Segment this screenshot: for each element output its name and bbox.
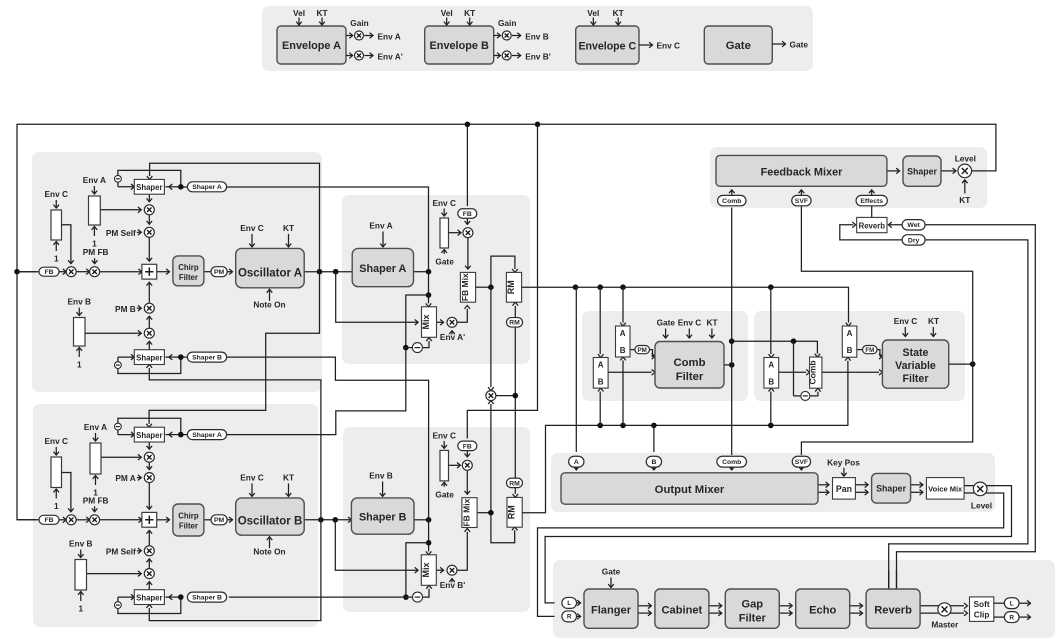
- pill Shaper A ref osc B: [165, 430, 226, 440]
- svg-text:Gate: Gate: [726, 40, 751, 52]
- svg-text:Oscillator A: Oscillator A: [238, 267, 302, 279]
- wire mult to FB mix B bottom: [457, 529, 470, 571]
- svg-text:Env C: Env C: [432, 198, 456, 208]
- wire top loop osc B: [118, 418, 181, 437]
- svg-text:1: 1: [92, 239, 97, 249]
- comb filter Gate input: [657, 318, 676, 339]
- svg-text:Env B': Env B': [525, 51, 551, 61]
- wire fx chain R: [709, 610, 722, 616]
- wire negate to mix A bottom: [406, 338, 432, 348]
- svg-text:Env B: Env B: [369, 471, 393, 481]
- comb blend box svf: [808, 357, 822, 388]
- svg-text:1: 1: [93, 488, 98, 498]
- multiplier FB B: [449, 460, 473, 470]
- oscillator B Env C input: [240, 472, 264, 496]
- svg-text:Key Pos: Key Pos: [827, 457, 860, 467]
- reverb block: [866, 589, 920, 628]
- oscillator A block: [236, 248, 305, 287]
- env slider Env A osc A: [83, 175, 106, 249]
- svg-text:Master: Master: [931, 620, 959, 630]
- pill Shaper B ref osc A: [165, 352, 226, 362]
- gate label shaper A section: [435, 250, 454, 267]
- wire shaper-to-mult osc B: [147, 442, 153, 449]
- svg-text:RM: RM: [509, 320, 520, 327]
- negate circle top loop osc A: [115, 175, 122, 182]
- voice mix block: [926, 478, 964, 500]
- svg-text:Vel: Vel: [587, 8, 599, 18]
- svg-text:Env A: Env A: [83, 175, 106, 185]
- pill A output mixer: [569, 456, 584, 467]
- oscillator B Note On input: [253, 537, 285, 557]
- multiplier voice level: [971, 482, 992, 510]
- wire feedback master loop: [14, 122, 996, 520]
- svg-text:Mix: Mix: [421, 562, 431, 577]
- svg-text:Cabinet: Cabinet: [662, 605, 703, 617]
- wire adder to chirp filter osc A: [157, 269, 170, 275]
- svg-text:Voice Mix: Voice Mix: [928, 485, 963, 494]
- block Envelope B: [425, 26, 494, 64]
- pill L effects input: [562, 597, 577, 608]
- svg-text:FB: FB: [44, 269, 53, 276]
- wire comb blend to svf: [822, 370, 883, 376]
- A/B blend box 1 svf: [764, 358, 779, 389]
- svg-text:Filter: Filter: [676, 371, 704, 383]
- svg-text:KT: KT: [283, 223, 294, 233]
- wire R output: [1019, 614, 1030, 620]
- svg-text:FB: FB: [463, 211, 472, 218]
- block Gate: [704, 26, 772, 64]
- wire svf blend2 to FM pill: [857, 349, 863, 351]
- Envelope B Vel input: [441, 8, 453, 25]
- pill FB osc B: [39, 515, 59, 524]
- wire raw osc A to top shaper loop: [147, 163, 320, 272]
- wire chirp to PM pill osc B: [204, 519, 211, 521]
- mix block A: [421, 307, 437, 338]
- wire oscillator A output: [304, 269, 352, 275]
- RM block A: [506, 272, 522, 302]
- RM block B: [507, 497, 523, 527]
- pill Shaper B ref osc B: [165, 592, 226, 602]
- svg-text:Comb: Comb: [808, 360, 818, 384]
- svg-text:Shaper: Shaper: [136, 594, 162, 603]
- svg-text:Feedback Mixer: Feedback Mixer: [761, 166, 843, 178]
- wire mult to FB mix A bottom: [457, 306, 470, 323]
- wire mult chain osc A top: [147, 215, 153, 225]
- wire fx chain R: [779, 610, 792, 616]
- svg-text:B: B: [620, 346, 626, 355]
- wire PM pill to oscillator A: [227, 269, 232, 275]
- shaper B Env B input: [369, 471, 393, 497]
- wire effects pill from reverb mini: [871, 206, 873, 218]
- multiplier FB env osc A: [66, 267, 76, 277]
- A/B blend box 2 comb: [616, 326, 631, 357]
- wire shaper A neg branch: [403, 295, 429, 350]
- svg-text:Clip: Clip: [974, 610, 990, 620]
- Envelope A KT input: [316, 8, 327, 25]
- FB mix block A: [460, 272, 476, 302]
- wire effects pill to feedback mixer: [869, 190, 875, 196]
- multiplier Env A prime: [440, 317, 465, 342]
- adder osc B: [142, 512, 157, 527]
- svg-text:1: 1: [78, 604, 83, 614]
- wire L pill to flanger: [577, 600, 581, 606]
- wire bus B to comb blend1 bottom: [598, 388, 604, 425]
- wire Env C slider out osc B: [62, 473, 74, 512]
- svg-text:Vel: Vel: [293, 8, 305, 18]
- pill Dry: [902, 235, 925, 245]
- comb filter block: [655, 342, 724, 389]
- wire FB mix B output: [477, 510, 494, 516]
- panel effects section: [553, 560, 1055, 638]
- negate circle mix A: [412, 343, 422, 353]
- Envelope B gain multiplier 1: [494, 31, 549, 41]
- svg-text:Pan: Pan: [836, 484, 852, 494]
- env slider Env C osc A: [44, 189, 68, 264]
- multiplier Env B prime: [440, 565, 466, 590]
- wire PM pill to oscillator B: [227, 517, 232, 523]
- svg-text:Shaper: Shaper: [136, 183, 162, 192]
- oscillator A Env C input: [240, 223, 264, 247]
- wire mult chain osc B bottom: [147, 559, 153, 569]
- svg-text:B: B: [651, 459, 656, 466]
- wire A pill into output mixer: [574, 467, 580, 470]
- svg-text:1: 1: [54, 254, 59, 264]
- mix block B: [421, 555, 437, 586]
- svg-text:FB: FB: [44, 517, 53, 524]
- wire dry loop: [840, 222, 1028, 589]
- wire bottom loop osc A: [118, 354, 181, 373]
- wire FM pill to svf: [877, 350, 882, 360]
- svg-text:Gate: Gate: [657, 318, 676, 328]
- svg-text:PM: PM: [214, 269, 225, 276]
- wire feedback mixer to shaper: [887, 168, 900, 174]
- svg-text:Shaper: Shaper: [876, 484, 906, 494]
- svg-text:Gap: Gap: [742, 599, 764, 611]
- svg-text:Flanger: Flanger: [591, 605, 632, 617]
- svg-text:Shaper A: Shaper A: [192, 184, 222, 191]
- wire bus B to svf blend1 bottom: [768, 388, 774, 428]
- svg-text:Env C: Env C: [894, 316, 918, 326]
- pill PM osc A: [211, 267, 227, 277]
- wire comb pill to feedback mixer: [729, 190, 735, 196]
- svg-text:Gate: Gate: [602, 567, 621, 577]
- svg-text:Comb: Comb: [722, 198, 741, 205]
- svg-text:Reverb: Reverb: [859, 222, 886, 231]
- wire reverb out R: [920, 610, 967, 616]
- multiplier FB env osc B: [66, 515, 76, 525]
- wire negate to mix B bottom: [406, 585, 432, 597]
- multiplier env osc A bottom: [144, 328, 154, 338]
- svg-text:Chirp: Chirp: [178, 263, 199, 272]
- wire adder bottom input osc A: [147, 282, 153, 303]
- wire bus A to comb blend2 top: [620, 287, 626, 326]
- wire raw osc A down to osc B section shaper: [146, 272, 319, 428]
- svg-text:Env C: Env C: [678, 318, 702, 328]
- flanger Gate input: [602, 567, 621, 588]
- wire R pill to flanger: [577, 614, 581, 620]
- svg-text:Level: Level: [971, 501, 992, 511]
- svg-text:Env C: Env C: [657, 41, 681, 51]
- wire FB pill to mult A: [465, 218, 471, 224]
- wire shaper A out down to mix A: [426, 272, 432, 307]
- svg-text:PM FB: PM FB: [83, 247, 109, 257]
- Envelope A gain multiplier 1: [346, 31, 401, 41]
- svg-text:B: B: [598, 378, 604, 387]
- panel oscillator A section: [32, 152, 322, 392]
- wire B pill into output mixer: [651, 467, 657, 470]
- wire fx chain L: [638, 603, 651, 609]
- reverb mini block: [857, 217, 887, 232]
- pill Comb feedback mixer: [718, 195, 746, 205]
- block Envelope A: [277, 26, 346, 64]
- svg-text:Shaper B: Shaper B: [192, 595, 222, 602]
- wire raw osc B to shaper A section bottom: [147, 365, 321, 520]
- svg-text:KT: KT: [316, 8, 327, 18]
- shaper block (top) osc B section: [134, 427, 164, 442]
- output mixer block: [561, 473, 818, 504]
- panel shaper A section: [342, 195, 530, 364]
- svg-text:Shaper B: Shaper B: [359, 512, 407, 524]
- wire comb neg branch svf: [793, 341, 795, 396]
- svg-text:PM Self: PM Self: [106, 546, 136, 556]
- Envelope A Gain label: [350, 18, 368, 28]
- multiplier PM Self osc A: [106, 227, 154, 238]
- wire ringmod to RM B: [513, 396, 519, 498]
- wire reverb out L: [920, 603, 967, 609]
- wire shaper B neg branch: [403, 543, 429, 600]
- svg-text:State: State: [903, 347, 929, 359]
- Envelope A gain multiplier 2: [346, 51, 403, 61]
- wire adder to chirp filter osc B: [157, 517, 170, 523]
- svg-text:SVF: SVF: [795, 459, 808, 466]
- pill Wet: [902, 220, 925, 230]
- svg-text:Filter: Filter: [179, 273, 198, 282]
- wire FB mix A down to ringmod mult: [488, 287, 494, 390]
- svg-text:Comb: Comb: [673, 357, 705, 369]
- multiplier master volume: [931, 603, 959, 630]
- wire comb blend1 to comb filter: [608, 370, 655, 376]
- svg-text:Envelope B: Envelope B: [430, 40, 489, 52]
- pill Comb output mixer: [717, 456, 747, 467]
- wire Env B slider out osc B: [87, 571, 142, 577]
- svg-text:Oscillator B: Oscillator B: [238, 515, 303, 527]
- pill FB shaper B section: [458, 441, 477, 451]
- svg-text:Shaper A: Shaper A: [359, 263, 406, 275]
- wire shaper A out up to pill row: [183, 187, 429, 272]
- A/B blend box 1 comb: [593, 358, 608, 389]
- env slider Env A osc B: [84, 422, 107, 498]
- svg-text:A: A: [598, 361, 604, 370]
- wire shaper to voice mix L: [911, 482, 923, 488]
- pill B output mixer: [646, 456, 661, 467]
- wire shaper A to osc B pill: [183, 348, 406, 435]
- svg-text:Variable: Variable: [895, 360, 936, 372]
- svg-text:Shaper: Shaper: [907, 166, 937, 176]
- svg-text:FB Mix: FB Mix: [460, 273, 470, 301]
- svg-text:PM: PM: [214, 517, 225, 524]
- svf KT input: [928, 316, 939, 337]
- svg-text:Filter: Filter: [179, 521, 198, 530]
- svg-text:L: L: [567, 600, 571, 607]
- negate circle bottom loop osc B: [115, 602, 122, 609]
- wire shaper B out up to osc A pill: [183, 357, 429, 520]
- wire RM A output bus: [522, 284, 852, 326]
- wire bus A to A pill: [575, 287, 578, 452]
- echo block: [796, 589, 850, 628]
- multiplier FB A: [449, 228, 473, 238]
- svg-text:Env A: Env A: [84, 422, 107, 432]
- negate circle svf comb: [801, 391, 810, 400]
- wire FB tap B: [467, 123, 537, 439]
- wire bus B to B pill: [653, 425, 655, 452]
- svg-text:Filter: Filter: [903, 373, 929, 385]
- feedback mixer block: [716, 155, 887, 186]
- svf Env C input: [894, 316, 918, 337]
- negate circle top loop osc B: [115, 423, 122, 430]
- svg-text:A: A: [574, 459, 579, 466]
- wire mult-to-adder osc B: [147, 483, 153, 510]
- svg-text:Reverb: Reverb: [874, 605, 912, 617]
- svg-text:Comb: Comb: [722, 459, 741, 466]
- svg-text:PM Self: PM Self: [106, 228, 136, 238]
- svg-text:Dry: Dry: [908, 237, 920, 244]
- svg-text:Shaper B: Shaper B: [192, 355, 222, 362]
- wire reverb taps: [889, 570, 897, 589]
- Gate output wire: [772, 40, 808, 50]
- wire comb distribution vertical: [729, 208, 735, 365]
- svg-text:KT: KT: [959, 195, 970, 205]
- wire comb to svf comb blend: [732, 338, 821, 357]
- Envelope B Gain label: [498, 18, 516, 28]
- pill Effects feedback mixer: [856, 195, 887, 205]
- svg-text:Vel: Vel: [441, 8, 453, 18]
- feedback level KT input: [959, 180, 970, 205]
- svg-text:FM: FM: [865, 347, 874, 354]
- svg-text:1: 1: [54, 501, 59, 511]
- wire bus A to svf blend1 top: [769, 287, 775, 357]
- wire adder bottom input osc B: [147, 530, 153, 546]
- Envelope C output wire: [639, 41, 680, 51]
- flanger block: [584, 589, 638, 628]
- Envelope B KT input: [464, 8, 475, 25]
- panel feedback mixer section: [710, 147, 987, 208]
- svg-text:Effects: Effects: [860, 198, 883, 205]
- pill RM shaper A section: [507, 318, 523, 328]
- wire shaper B to osc B bottom pill: [229, 596, 406, 598]
- wire FB mix A to RM A top: [491, 256, 518, 287]
- svg-text:Level: Level: [955, 153, 976, 163]
- svg-text:Env C: Env C: [240, 472, 264, 482]
- wire chirp to PM pill osc A: [204, 271, 211, 273]
- shaper B block: [351, 498, 414, 534]
- wire voice out L: [545, 486, 1011, 603]
- env slider Env B osc B: [69, 538, 93, 613]
- svg-text:Gate: Gate: [790, 40, 809, 50]
- svg-text:Env C: Env C: [240, 223, 264, 233]
- panel envelopes: [262, 6, 813, 71]
- svg-text:SVF: SVF: [795, 198, 808, 205]
- wire mult chain osc B top: [147, 462, 153, 469]
- wire FB mult to FB mix B: [465, 470, 471, 494]
- panel output mixer section: [551, 453, 995, 512]
- wire bus B to comb blend2 bottom: [620, 357, 626, 425]
- multiplier ringmod: [486, 391, 518, 401]
- svg-text:L: L: [1010, 601, 1014, 608]
- panel shaper B section: [343, 427, 530, 612]
- shaper block (bottom) osc B section: [134, 590, 164, 605]
- shaper block feedback mixer: [903, 156, 941, 186]
- svg-text:Shaper: Shaper: [136, 354, 162, 363]
- svg-text:RM: RM: [507, 505, 517, 519]
- svg-text:PM A: PM A: [115, 473, 135, 483]
- pill SVF output mixer: [792, 456, 810, 467]
- svg-text:KT: KT: [706, 318, 717, 328]
- wire output mixer to pan L: [818, 482, 829, 488]
- wire mult chain osc A bottom: [147, 316, 153, 328]
- pill PM comb section: [635, 346, 650, 354]
- wire shaper to level mult: [941, 168, 956, 174]
- svg-text:FB Mix: FB Mix: [461, 498, 471, 526]
- negate circle bottom loop osc A: [115, 362, 122, 369]
- wire comb blend2 to PM pill: [630, 349, 635, 351]
- wire svf pill into output mixer: [799, 467, 805, 470]
- wire svf down to output mixer: [801, 364, 972, 455]
- wire fx chain L: [709, 603, 722, 609]
- wire fx chain R: [850, 610, 863, 616]
- wire fx chain R: [638, 610, 651, 616]
- wire shaper-to-mult osc A: [147, 194, 153, 202]
- oscillator A KT input: [283, 223, 294, 247]
- wire top loop osc A: [118, 170, 181, 189]
- wire voice out R: [538, 493, 1004, 616]
- pill R effects input: [562, 611, 577, 622]
- svg-text:Envelope A: Envelope A: [282, 40, 341, 52]
- oscillator B KT input: [283, 472, 294, 496]
- wire L output: [1019, 600, 1030, 606]
- wire FB pill to mult B: [465, 451, 471, 457]
- wire pan to shaper R: [855, 490, 868, 496]
- svg-text:Filter: Filter: [739, 613, 767, 625]
- svg-text:RM: RM: [509, 480, 520, 487]
- wire FB mult to FB mix A: [465, 238, 471, 269]
- wire wet loop: [888, 222, 1035, 589]
- svg-text:Env B: Env B: [69, 538, 93, 548]
- comb filter KT input: [706, 318, 717, 339]
- state variable filter block: [882, 340, 948, 388]
- wire comb pill into output mixer: [729, 467, 735, 470]
- oscillator B block: [236, 498, 305, 535]
- wire raw osc A to mix A: [336, 272, 418, 325]
- wire fx chain L: [850, 603, 863, 609]
- shaper A block: [352, 248, 413, 286]
- negate circle mix B: [413, 592, 423, 602]
- chirp filter osc A: [173, 256, 204, 286]
- multiplier feedback level: [955, 153, 976, 177]
- svg-text:PM: PM: [638, 347, 647, 354]
- wire shaper-to-mult osc A bottom: [147, 341, 153, 350]
- wire fx chain L: [779, 603, 792, 609]
- pill FM svf section: [863, 346, 878, 354]
- multiplier PM B osc A: [115, 303, 154, 314]
- Envelope C Vel input: [587, 8, 599, 25]
- wire RM B output bus: [522, 357, 851, 513]
- oscillator A Note On input: [253, 289, 285, 309]
- soft clip block: [970, 597, 994, 622]
- wire FB mix A output: [476, 284, 494, 290]
- pill L effects output: [994, 598, 1019, 609]
- svg-text:A: A: [620, 329, 626, 338]
- multiplier PM Self osc B: [106, 546, 154, 557]
